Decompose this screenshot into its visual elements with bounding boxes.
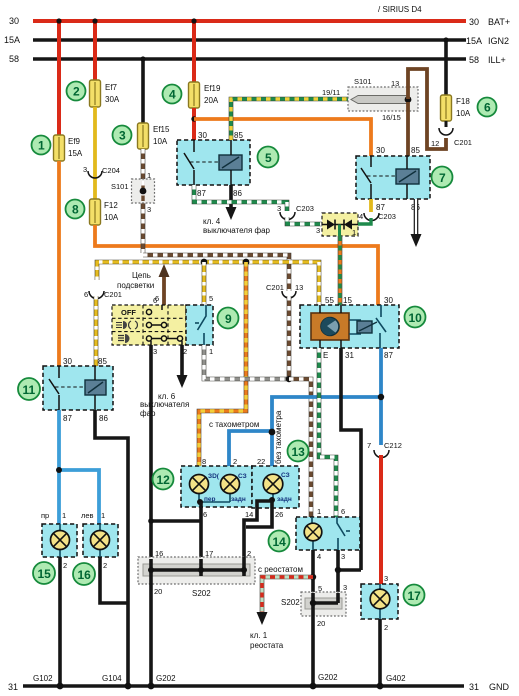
callout 12 <box>153 469 174 490</box>
svg-text:55: 55 <box>325 296 334 305</box>
wire lamp17 pin2 to ground G402 <box>378 619 382 686</box>
svg-text:F12: F12 <box>104 201 118 210</box>
wire arrow switch pin6 to illumination <box>155 264 170 305</box>
callout 2 <box>67 82 86 101</box>
svg-text:86: 86 <box>233 189 242 198</box>
svg-text:5: 5 <box>209 294 213 303</box>
bus 15A IGN2 <box>4 35 509 46</box>
svg-text:58: 58 <box>9 54 19 64</box>
label illumination circuit <box>117 271 154 290</box>
svg-text:Ef15: Ef15 <box>153 125 170 134</box>
svg-text:/ SIRIUS D4: / SIRIUS D4 <box>378 5 422 14</box>
wire bus30 to Ef19 <box>191 18 196 83</box>
svg-text:87: 87 <box>197 189 206 198</box>
svg-text:подсветки: подсветки <box>117 281 154 290</box>
relay 7 coil <box>396 156 419 199</box>
switch contacts <box>146 305 182 345</box>
svg-text:85: 85 <box>234 131 243 140</box>
license plate lamp box 17 <box>361 584 398 632</box>
svg-text:6: 6 <box>84 290 88 299</box>
svg-text:1: 1 <box>209 347 213 356</box>
svg-text:ЗD(: ЗD( <box>208 473 220 480</box>
svg-text:30: 30 <box>63 357 72 366</box>
svg-text:G102: G102 <box>33 674 53 683</box>
splice S101 main <box>322 77 418 122</box>
relay 5 box <box>177 131 250 198</box>
svg-text:8: 8 <box>72 203 79 217</box>
callout 9 <box>218 308 239 329</box>
svg-text:15A: 15A <box>68 149 83 158</box>
svg-text:30: 30 <box>198 131 207 140</box>
wire Ef15 output striped to S101 and bus crossing <box>141 149 146 253</box>
svg-text:S202: S202 <box>281 598 300 607</box>
lamp 13 <box>263 474 283 500</box>
callout 15 <box>33 562 55 584</box>
svg-text:1: 1 <box>147 171 151 180</box>
wire brown S101 down to relay7-85 <box>406 102 410 156</box>
fuse Ef19 <box>189 82 222 108</box>
relay 10 coil and switch <box>349 305 386 348</box>
svg-text:3: 3 <box>316 226 320 235</box>
svg-text:14: 14 <box>273 535 287 549</box>
wire relay7-87 to C203 pin4 <box>358 199 396 224</box>
wire C201-6 striped down to relay11-85 <box>94 296 99 366</box>
wire bus15A to F18 <box>443 37 448 96</box>
svg-text:15: 15 <box>38 567 52 581</box>
svg-text:12: 12 <box>431 139 439 148</box>
wire diode pin2 striped green-orange to relay10-15 <box>338 236 343 305</box>
svg-text:16: 16 <box>78 568 92 582</box>
wire relay7-86 white arrow down <box>411 199 422 247</box>
svg-text:10A: 10A <box>456 109 471 118</box>
svg-text:31: 31 <box>345 351 354 360</box>
fuse F18 <box>441 95 471 121</box>
svg-text:Ef19: Ef19 <box>204 84 221 93</box>
svg-text:17: 17 <box>408 589 422 603</box>
svg-text:7: 7 <box>439 171 446 185</box>
svg-text:13: 13 <box>292 445 306 459</box>
callout 11 <box>18 378 40 400</box>
callout 14 <box>269 531 290 552</box>
switch icon parking lights <box>116 321 137 329</box>
wire lamp13 pin26 black <box>246 501 283 527</box>
wire 19/11 striped green-yellow to relay5-85 <box>231 99 352 140</box>
svg-text:87: 87 <box>376 203 385 212</box>
wire red C212 to lamp17 <box>381 455 388 584</box>
svg-text:ILL+: ILL+ <box>488 55 506 65</box>
svg-text:10A: 10A <box>104 213 119 222</box>
fuse Ef15 <box>138 123 171 149</box>
svg-text:3: 3 <box>147 205 151 214</box>
svg-text:Ef9: Ef9 <box>68 137 81 146</box>
svg-text:кл. 1: кл. 1 <box>250 631 268 640</box>
wire switch pin3 black down <box>149 345 153 559</box>
wire C201-13 down to junction with switch pin1 wire <box>287 296 292 379</box>
svg-text:3: 3 <box>83 165 87 174</box>
svg-text:C201: C201 <box>454 138 472 147</box>
wire to switch pin5 striped <box>201 259 208 305</box>
callout 6 <box>478 98 497 117</box>
svg-text:E: E <box>323 351 328 360</box>
svg-text:F18: F18 <box>456 97 470 106</box>
svg-text:6: 6 <box>341 507 345 516</box>
svg-text:1: 1 <box>38 139 45 153</box>
svg-text:2: 2 <box>73 85 80 99</box>
splice S101 small <box>111 171 155 214</box>
connector C201 pin12 <box>431 121 472 148</box>
svg-text:1: 1 <box>352 228 356 237</box>
relay 11 box <box>43 357 113 423</box>
svg-text:19/11: 19/11 <box>322 88 340 97</box>
svg-text:10A: 10A <box>153 137 168 146</box>
callout 8 <box>66 200 85 219</box>
wire Ef19 output red to relay5-30 <box>191 108 196 140</box>
svg-text:BAT+: BAT+ <box>488 17 510 27</box>
relay 10 sensor module <box>311 305 349 348</box>
svg-text:3: 3 <box>153 347 157 356</box>
instrument cluster lamp box 13 <box>252 457 299 508</box>
instrument cluster lamps box 12 <box>181 457 252 507</box>
svg-text:1: 1 <box>62 511 66 520</box>
relay 7 switch <box>361 156 396 199</box>
relay 5 switch <box>184 140 219 185</box>
wire blue to lamp12 pin2 and lamp13 pin22 <box>209 410 283 466</box>
dimmer switch small box <box>153 294 213 356</box>
svg-text:OFF: OFF <box>121 308 136 317</box>
svg-text:пр: пр <box>41 511 49 520</box>
svg-text:3: 3 <box>384 574 388 583</box>
svg-text:C204: C204 <box>102 166 120 175</box>
callout 4 <box>163 85 182 104</box>
wire orange Ef19 junction to relay7-30 <box>194 119 371 156</box>
svg-text:20: 20 <box>317 619 325 628</box>
svg-text:16: 16 <box>155 549 163 558</box>
svg-text:2: 2 <box>384 623 388 632</box>
callout 3 <box>113 126 132 145</box>
callout 17 <box>404 585 425 606</box>
wire Ef9 output orange to relay11-30 <box>57 161 61 366</box>
wire relay10-31 black to lamp14 pin3 junction <box>335 348 361 593</box>
wire illumination yellow striped horizontal y262 <box>97 262 319 305</box>
wire relay10-87 blue to C212 and panel lamps <box>272 348 384 445</box>
svg-text:3: 3 <box>277 204 281 213</box>
ground G202 a <box>148 674 177 689</box>
svg-text:7: 7 <box>367 441 371 450</box>
svg-text:85: 85 <box>98 357 107 366</box>
wire switch pin2 arrow terminal6 <box>140 345 189 418</box>
side lamp right box 15 <box>42 524 77 570</box>
svg-text:1: 1 <box>101 511 105 520</box>
relay 10 box <box>300 296 399 360</box>
svg-text:G202: G202 <box>156 674 176 683</box>
callout 7 <box>432 167 453 188</box>
svg-text:S202: S202 <box>192 589 211 598</box>
svg-text:C203: C203 <box>296 204 314 213</box>
connector C203 pin3 <box>277 204 314 220</box>
svg-text:85: 85 <box>411 146 420 155</box>
svg-text:31: 31 <box>469 682 479 692</box>
svg-text:86: 86 <box>99 414 108 423</box>
svg-text:4: 4 <box>317 552 321 561</box>
svg-text:G202: G202 <box>318 673 338 682</box>
svg-text:GND: GND <box>489 682 510 692</box>
lamp 14 <box>304 517 322 550</box>
wire brown striped junction to lamp14 pin1 <box>289 379 311 517</box>
svg-text:3: 3 <box>343 583 347 592</box>
svg-text:Ef7: Ef7 <box>105 83 118 92</box>
svg-text:26: 26 <box>275 510 283 519</box>
wire lamp16 pin2 to ground join <box>100 557 128 603</box>
svg-text:30: 30 <box>376 146 385 155</box>
svg-text:13: 13 <box>295 283 303 292</box>
wire relay10-E green striped to lamp14 pin6 <box>319 348 336 517</box>
wire lamp15 pin2 to ground G102 <box>58 557 62 686</box>
svg-text:11: 11 <box>23 383 36 397</box>
svg-text:87: 87 <box>63 414 72 423</box>
svg-text:2: 2 <box>103 561 107 570</box>
svg-text:22: 22 <box>257 457 265 466</box>
callout 16 <box>73 563 95 585</box>
relay 5 coil <box>219 140 242 185</box>
headlight switch unit 9 <box>112 305 186 345</box>
callout 5 <box>258 147 279 168</box>
svg-text:4: 4 <box>359 212 363 221</box>
svg-text:12: 12 <box>157 473 171 487</box>
fuse Ef9 <box>54 135 83 161</box>
svg-text:1: 1 <box>317 507 321 516</box>
svg-text:задн: задн <box>231 496 246 503</box>
svg-text:2: 2 <box>63 561 67 570</box>
svg-text:S101: S101 <box>354 77 372 86</box>
connector C201 pin6 <box>84 290 122 299</box>
svg-text:58: 58 <box>469 55 479 65</box>
wire relay5-86 arrow to terminal 4 of light switch <box>203 185 271 235</box>
svg-text:31: 31 <box>8 682 18 692</box>
svg-text:15A: 15A <box>4 35 20 45</box>
svg-text:без тахометра: без тахометра <box>274 410 283 464</box>
ground G104 <box>102 674 131 689</box>
wire brown-white striped horizontal to C201-13 <box>143 255 289 291</box>
svg-text:9: 9 <box>225 312 232 326</box>
svg-text:6: 6 <box>203 510 207 519</box>
rear fog switch unit 14 <box>296 507 360 561</box>
svg-text:3: 3 <box>119 129 126 143</box>
svg-text:87: 87 <box>384 351 393 360</box>
svg-text:3: 3 <box>341 552 345 561</box>
svg-text:2: 2 <box>233 457 237 466</box>
svg-text:выключателя фар: выключателя фар <box>203 226 271 235</box>
wire relay11-87 blue to lamps 15 16 <box>41 410 105 524</box>
svg-text:6: 6 <box>153 296 157 305</box>
diode module <box>322 213 358 247</box>
wire F12 output orange bus to relay10-30 <box>95 225 378 305</box>
wire relay5-87 green striped to C203 <box>194 185 287 211</box>
svg-text:реостата: реостата <box>250 641 284 650</box>
svg-text:с тахометром: с тахометром <box>209 420 259 429</box>
bus 30 BAT+ <box>9 16 510 27</box>
bus 58 ILL+ <box>9 54 506 65</box>
svg-text:30: 30 <box>469 17 479 27</box>
wire lamp13 pin14 black <box>244 497 275 557</box>
svg-text:2: 2 <box>247 549 251 558</box>
lamp 12b <box>199 474 240 502</box>
svg-text:8: 8 <box>202 457 206 466</box>
svg-text:с реостатом: с реостатом <box>258 565 303 574</box>
ground G202 b <box>310 673 339 689</box>
splice S202 main <box>138 549 255 598</box>
fuse Ef7 <box>90 80 120 107</box>
svg-text:16/15: 16/15 <box>382 113 401 122</box>
relay 11 coil <box>85 366 106 410</box>
svg-text:СЗ: СЗ <box>238 473 247 480</box>
wire striped orange-yellow to lamp12 pin8 <box>199 259 249 466</box>
svg-text:кл. 4: кл. 4 <box>203 217 221 226</box>
svg-text:G402: G402 <box>386 674 406 683</box>
switch 14 <box>337 517 350 550</box>
callout 13 <box>288 441 309 462</box>
svg-text:20: 20 <box>154 587 162 596</box>
title SIRIUS D4 <box>378 5 422 14</box>
wire C203 to diode module pin3 <box>287 217 322 235</box>
svg-text:C201: C201 <box>266 283 284 292</box>
svg-text:фар: фар <box>140 409 156 418</box>
svg-text:СЗ: СЗ <box>281 472 290 479</box>
wire lamp12 pin6 black down <box>148 499 207 559</box>
ground bus 31 <box>8 682 510 692</box>
splice S202 second <box>281 583 347 628</box>
connector C204 <box>83 165 120 178</box>
callout 10 <box>405 307 426 328</box>
svg-text:C212: C212 <box>384 441 402 450</box>
wire bus30 to Ef7 <box>92 18 97 81</box>
wire bus58 to Ef15 <box>140 56 145 124</box>
svg-text:C201: C201 <box>104 290 122 299</box>
svg-text:30: 30 <box>9 16 19 26</box>
svg-text:S101: S101 <box>111 182 129 191</box>
ground G102 <box>33 674 63 689</box>
relay 11 switch <box>49 366 85 410</box>
svg-text:17: 17 <box>205 549 213 558</box>
svg-text:6: 6 <box>484 101 491 115</box>
wire Ef7 to C204 to F12 yellow <box>93 107 97 199</box>
wire relay11-86 black to ground <box>95 410 128 686</box>
svg-text:30A: 30A <box>105 95 120 104</box>
connector C201 pin13 <box>266 283 303 298</box>
svg-text:4: 4 <box>169 88 176 102</box>
svg-text:5: 5 <box>265 151 272 165</box>
connector C212 <box>367 441 402 458</box>
wire rheostat striped red <box>250 565 313 650</box>
wire lamp14 pin4 black down to S202-5 <box>310 550 322 593</box>
svg-text:14: 14 <box>245 510 253 519</box>
callout 1 <box>32 136 51 155</box>
relay 7 box <box>356 146 430 212</box>
svg-text:IGN2: IGN2 <box>488 36 509 46</box>
wire bus30 to Ef9 <box>56 18 61 136</box>
wire switch pin1 gray striped to junction <box>204 345 292 382</box>
fuse F12 <box>90 199 119 225</box>
svg-text:G104: G104 <box>102 674 122 683</box>
svg-text:30: 30 <box>384 296 393 305</box>
svg-text:13: 13 <box>391 79 399 88</box>
wire S202-20 to ground G202 <box>149 576 153 686</box>
svg-text:выключателя: выключателя <box>140 400 189 409</box>
svg-text:10: 10 <box>409 311 423 325</box>
svg-text:лев: лев <box>81 511 94 520</box>
wire brown S101 up-over to C201-12 <box>408 69 446 149</box>
svg-text:20A: 20A <box>204 96 219 105</box>
svg-text:задн: задн <box>277 496 292 503</box>
svg-text:Цепь: Цепь <box>132 271 151 280</box>
svg-text:15: 15 <box>343 296 352 305</box>
svg-text:15A: 15A <box>466 36 482 46</box>
side lamp left box 16 <box>83 524 118 570</box>
svg-text:C203: C203 <box>378 212 396 221</box>
lamp 12a <box>190 474 209 502</box>
ground G402 <box>377 674 407 689</box>
wire S202 second pin20 to ground <box>311 616 315 686</box>
switch icon headlights <box>118 334 130 343</box>
